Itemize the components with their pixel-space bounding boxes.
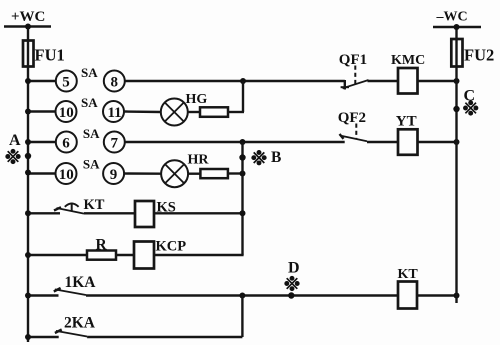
wire R-KCP	[116, 254, 134, 256]
wire row2 left	[28, 110, 55, 112]
svg-text:+WC: +WC	[11, 9, 45, 25]
svg-text:FU2: FU2	[464, 46, 494, 65]
wire row6 left	[28, 254, 87, 256]
svg-text:KMC: KMC	[391, 53, 425, 68]
marker C	[463, 100, 478, 115]
svg-text:KCP: KCP	[156, 239, 187, 255]
svg-text:FU1: FU1	[35, 46, 65, 65]
SA contact 7	[104, 132, 125, 153]
wire row7 right	[86, 294, 398, 296]
node row7-bus	[25, 293, 31, 299]
bus +WC bar	[4, 25, 51, 28]
marker A	[5, 149, 20, 164]
marker D	[284, 276, 299, 291]
svg-text:KT: KT	[84, 197, 105, 213]
junction row5-Bcol	[240, 210, 246, 216]
wire row8 right	[87, 336, 242, 338]
SA contact 6	[56, 132, 77, 153]
wire resistor-riser	[228, 111, 244, 113]
svg-text:5: 5	[62, 74, 70, 90]
resistor row4	[200, 169, 228, 178]
svg-text:8: 8	[111, 74, 119, 90]
wire KTcoil-bus	[417, 294, 457, 296]
svg-text:6: 6	[62, 135, 70, 151]
svg-text:QF2: QF2	[338, 110, 366, 126]
SA contact 10b	[56, 163, 77, 184]
coil KMC	[398, 68, 418, 94]
SA contact 10	[56, 101, 77, 122]
SA contact 8	[104, 71, 125, 92]
node A	[25, 153, 31, 159]
bus -WC bar	[433, 26, 481, 29]
node C	[453, 106, 459, 112]
breaker contact QF2	[340, 124, 368, 142]
breaker contact QF1	[341, 66, 369, 90]
svg-text:R: R	[96, 237, 108, 254]
junction node B top	[240, 139, 246, 145]
time-delay contact KT	[54, 203, 84, 214]
wire KCP-Bcol	[154, 254, 244, 256]
relay contact 2KA	[55, 330, 87, 337]
relay contact 1KA	[54, 288, 86, 295]
marker B	[251, 150, 266, 165]
svg-text:9: 9	[110, 167, 118, 183]
svg-text:SA: SA	[81, 95, 98, 110]
svg-text:QF1: QF1	[339, 52, 367, 68]
node row5-bus	[25, 210, 31, 216]
SA contact 11	[103, 101, 124, 122]
junction row7-lower riser	[239, 293, 245, 299]
wire row7 left	[28, 294, 59, 296]
svg-text:HR: HR	[188, 152, 210, 167]
svg-text:D: D	[288, 260, 300, 277]
lamp HR	[161, 160, 188, 187]
wire row8 left	[26, 336, 59, 338]
node row1-bus	[25, 78, 31, 84]
wire row2 mid	[124, 110, 161, 113]
resistor R	[87, 251, 116, 260]
junction row3-rightbus	[454, 139, 460, 145]
right bus wire	[455, 27, 457, 303]
node row3-bus	[25, 139, 31, 145]
svg-text:B: B	[271, 149, 281, 166]
junction row4-Bcol	[240, 171, 246, 177]
coil KCP	[134, 242, 154, 269]
svg-text:SA: SA	[83, 157, 100, 172]
junction top-left	[25, 24, 31, 30]
wire riser row8-row7	[241, 296, 243, 338]
SA contact 5	[56, 71, 77, 92]
node D	[288, 292, 294, 298]
wire lamp-resistor	[188, 111, 200, 113]
svg-text:SA: SA	[83, 126, 100, 141]
wire YT-bus	[418, 141, 457, 143]
wire KS-Bcol	[154, 212, 243, 214]
svg-text:A: A	[9, 132, 21, 149]
wire row5 left	[28, 212, 60, 214]
svg-text:HG: HG	[186, 92, 208, 107]
svg-text:KT: KT	[398, 267, 419, 282]
svg-text:–WC: –WC	[436, 10, 468, 25]
junction row1-riser	[240, 78, 246, 84]
SA contact 9	[103, 163, 124, 184]
fuse FU2	[451, 39, 462, 67]
coil KS	[135, 201, 154, 227]
svg-text:11: 11	[108, 105, 122, 121]
wire row1 right	[125, 80, 345, 82]
junction row7-rightbus	[454, 293, 460, 299]
coil KT	[398, 282, 417, 309]
wire KT-KS	[84, 212, 135, 214]
junction row1-rightbus	[454, 78, 460, 84]
wire row4 mid	[124, 172, 161, 175]
wire QF1-KMC	[368, 80, 399, 82]
left bus wire	[27, 27, 29, 343]
resistor row2	[200, 107, 228, 117]
wire KMC-bus	[418, 80, 457, 82]
node row6-bus	[25, 252, 31, 258]
wire row1 left	[28, 80, 56, 82]
fuse FU1	[23, 41, 34, 67]
wire B column	[241, 142, 243, 255]
svg-text:1KA: 1KA	[65, 274, 97, 291]
wire resistor-B column	[228, 172, 243, 174]
svg-text:10: 10	[59, 105, 74, 121]
wire riser row2-row1	[242, 81, 244, 112]
svg-text:10: 10	[59, 167, 74, 183]
wire row3 right	[125, 141, 345, 143]
wire row4 left	[28, 172, 55, 174]
node row8-bus	[25, 334, 31, 340]
coil YT	[398, 129, 418, 155]
junction top-right	[454, 24, 460, 30]
wire lamp-resistor row4	[188, 172, 200, 174]
node row2-bus	[25, 109, 31, 115]
svg-text:2KA: 2KA	[64, 315, 96, 332]
svg-text:7: 7	[111, 135, 119, 151]
svg-text:YT: YT	[396, 113, 417, 129]
node B	[239, 154, 245, 160]
node row4-bus	[25, 170, 31, 176]
svg-text:SA: SA	[81, 65, 98, 80]
lamp HG	[161, 99, 188, 126]
wire QF2-YT	[367, 141, 398, 143]
wire row3 left	[28, 141, 56, 143]
